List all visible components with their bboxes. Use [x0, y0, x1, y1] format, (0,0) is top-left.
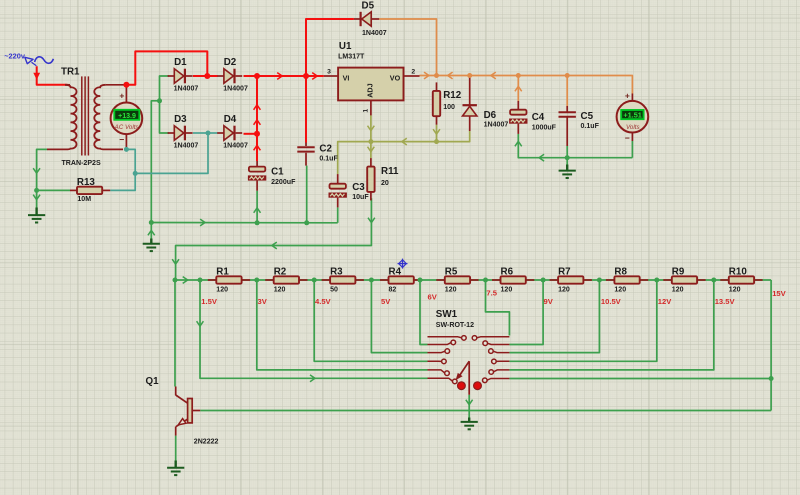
wire AC source to TR1 primary top (red)	[37, 66, 68, 85]
capacitor C4 leads	[517, 101, 519, 134]
resistor R7	[550, 266, 592, 293]
resistor R8	[606, 266, 648, 293]
junction node chain start	[173, 278, 178, 283]
svg-text:1: 1	[363, 109, 370, 113]
svg-text:VO: VO	[390, 73, 401, 82]
svg-text:50: 50	[330, 287, 338, 294]
svg-text:6V: 6V	[428, 292, 438, 301]
svg-text:C2: C2	[319, 144, 332, 155]
wire 10.5V tap (green)	[509, 280, 599, 353]
wire D4 junction down to C1 (red)	[256, 134, 258, 161]
svg-text:R1: R1	[216, 266, 229, 277]
current arrow	[368, 147, 375, 152]
current arrow	[33, 168, 40, 173]
junction node C2 bottom	[304, 220, 309, 225]
svg-text:D3: D3	[174, 114, 187, 125]
resistor R3	[322, 266, 364, 293]
wire D4 cathode to junction (red)	[244, 133, 258, 135]
svg-text:U1: U1	[339, 41, 352, 52]
junction node C1 bottom	[255, 220, 260, 225]
svg-text:2200uF: 2200uF	[271, 179, 296, 186]
wire SW1 pole to ground (green)	[468, 395, 470, 418]
wire VI junction up to D5 anode-side (red)	[306, 19, 354, 76]
junction node R13 left	[34, 188, 39, 193]
capacitor C5	[559, 111, 600, 130]
svg-text:9V: 9V	[544, 297, 554, 306]
svg-text:TR1: TR1	[61, 67, 80, 78]
svg-text:120: 120	[614, 287, 626, 294]
current arrow	[368, 218, 375, 223]
svg-text:AC Volts: AC Volts	[114, 124, 139, 131]
svg-text:D4: D4	[224, 114, 237, 125]
svg-text:5V: 5V	[381, 297, 391, 306]
svg-text:−: −	[119, 134, 124, 144]
rotary switch SW1 SW-ROT-12	[428, 309, 510, 395]
AC mains source ~220v	[4, 52, 53, 66]
ground	[461, 418, 478, 430]
capacitor C3 leads	[337, 174, 339, 207]
wire D2 anode from junction (red)	[207, 75, 217, 77]
wire C4 bottom return (green)	[518, 134, 632, 158]
svg-text:+: +	[625, 91, 630, 101]
svg-text:1N4007: 1N4007	[223, 86, 248, 93]
wire VO rail corner down to voltmeter (orange)	[631, 76, 634, 94]
capacitor C3	[329, 182, 370, 201]
current arrow	[172, 259, 179, 264]
wire VI junction down to C2 (red)	[305, 76, 307, 143]
wire node output of D4 vertical (red)	[256, 76, 258, 134]
wire 12V tap (green)	[509, 280, 656, 361]
junction node ground rail	[149, 220, 154, 225]
ground	[143, 239, 160, 252]
current arrow	[448, 72, 453, 79]
junction node 6V	[418, 278, 423, 283]
junction node C4 top	[516, 73, 521, 78]
svg-text:R9: R9	[672, 266, 685, 277]
ground	[559, 165, 576, 179]
wire 1.5V tap (green)	[200, 280, 428, 378]
wire VO rail (orange)	[420, 75, 632, 77]
current arrow	[277, 73, 282, 80]
wire C5 bottom lead (green)	[566, 146, 568, 158]
junction node D6 top	[467, 73, 472, 78]
resistor R4	[380, 266, 422, 293]
junction node D3-D4	[206, 131, 211, 136]
wire D1 anode branch (green)	[160, 76, 170, 133]
wire ground rail horizontal (green)	[151, 222, 337, 224]
svg-text:1.5V: 1.5V	[201, 297, 218, 306]
svg-text:120: 120	[558, 287, 570, 294]
current arrow	[402, 138, 407, 145]
resistor R11	[367, 158, 399, 200]
capacitor C2	[297, 144, 338, 163]
current arrow	[254, 120, 261, 125]
svg-text:1000uF: 1000uF	[532, 124, 557, 131]
current arrow	[272, 242, 277, 249]
wire 15V corner down (green)	[770, 280, 772, 411]
resistor R2	[265, 266, 307, 293]
wire R11 bottom to R1 feed (green)	[176, 198, 372, 280]
resistor R1	[208, 266, 250, 293]
capacitor C2	[305, 143, 307, 166]
svg-text:Q1: Q1	[146, 376, 160, 387]
AC voltmeter	[111, 85, 143, 150]
svg-text:D2: D2	[224, 57, 237, 68]
junction node 1.5V	[198, 278, 203, 283]
wire 7.5V tap (green)	[486, 280, 510, 336]
svg-text:R6: R6	[501, 266, 514, 277]
junction node D1-D2	[204, 73, 210, 79]
svg-text:R2: R2	[274, 266, 287, 277]
resistor R10	[720, 266, 762, 293]
svg-text:R8: R8	[614, 266, 627, 277]
capacitor C5 leads	[566, 106, 568, 146]
wire D4 anode from junction (teal)	[208, 132, 218, 134]
transistor Q1 2N2222	[146, 376, 219, 445]
svg-text:10uF: 10uF	[352, 194, 369, 201]
svg-text:TRAN-2P2S: TRAN-2P2S	[62, 160, 101, 167]
svg-text:1N4007: 1N4007	[223, 143, 248, 150]
wire 15V to SW contact (green)	[509, 378, 771, 380]
current arrow	[368, 126, 375, 131]
wire C4 top lead from rail (orange)	[517, 76, 519, 102]
svg-text:ADJ: ADJ	[365, 83, 374, 97]
resistor R9	[663, 266, 705, 293]
resistor R6	[492, 266, 534, 293]
svg-text:13.5V: 13.5V	[715, 297, 736, 306]
current arrow	[433, 129, 440, 134]
junction node TR1 secondary bottom	[124, 147, 129, 152]
diode D3	[168, 114, 199, 150]
origin marker (blue diamond)	[398, 259, 408, 269]
svg-text:R10: R10	[729, 266, 748, 277]
svg-text:R12: R12	[443, 90, 462, 101]
capacitor C1	[256, 161, 258, 191]
wire TR1 secondary top to D1/D2 junction (red)	[126, 51, 207, 84]
svg-text:LM317T: LM317T	[338, 54, 365, 61]
wire ADJ net horizontal (olive)	[338, 131, 470, 174]
svg-text:100: 100	[443, 104, 455, 111]
wire ADJ junction down to R11 (olive)	[370, 142, 372, 159]
diode D1	[168, 57, 199, 93]
current arrow	[254, 208, 261, 213]
current arrow	[148, 230, 155, 235]
junction node 15V branch	[769, 376, 774, 381]
current arrow	[197, 321, 204, 326]
svg-text:0.1uF: 0.1uF	[319, 156, 338, 163]
wire Q1 emitter to ground (green)	[175, 436, 177, 461]
svg-text:C4: C4	[532, 112, 545, 123]
junction node R12 top	[434, 73, 439, 78]
capacitor C4	[509, 110, 557, 132]
wire secondary bottom to D3/D4 junction (teal)	[135, 133, 208, 173]
junction node C5 ground	[565, 155, 570, 160]
current arrow	[539, 154, 544, 161]
current arrow	[312, 73, 317, 80]
current arrow	[200, 219, 205, 226]
current arrow	[491, 72, 496, 79]
wire resistor chain rail (green)	[175, 279, 771, 281]
svg-text:120: 120	[274, 287, 286, 294]
junction node 7.5V	[483, 278, 488, 283]
svg-text:R5: R5	[445, 266, 458, 277]
wire C5 top lead from rail (orange)	[566, 76, 568, 107]
svg-text:~220v: ~220v	[4, 52, 26, 61]
svg-text:R11: R11	[381, 166, 399, 177]
svg-text:D5: D5	[362, 0, 375, 11]
wire ADJ pin down (olive)	[370, 115, 372, 141]
wire DC voltmeter negative return (green)	[631, 141, 633, 158]
wire ground rail to ground symbol (green)	[150, 223, 152, 239]
current arrow	[424, 72, 429, 79]
resistor R5	[436, 266, 478, 293]
wire 13.5V tap (green)	[509, 280, 713, 370]
svg-text:3: 3	[327, 68, 331, 75]
svg-text:SW-ROT-12: SW-ROT-12	[436, 322, 474, 329]
svg-text:0.1uF: 0.1uF	[581, 123, 600, 130]
wire 5V tap (green)	[371, 280, 427, 353]
svg-text:+: +	[119, 90, 124, 100]
junction node ADJ	[368, 139, 373, 144]
DC voltmeter	[617, 91, 649, 143]
wire D1 cathode to junction (red)	[193, 75, 207, 77]
current arrow	[310, 375, 315, 382]
svg-text:82: 82	[389, 287, 397, 294]
capacitor C1	[248, 167, 296, 186]
resistor R13	[70, 177, 110, 203]
svg-text:120: 120	[672, 287, 684, 294]
svg-text:1N4007: 1N4007	[174, 86, 199, 93]
svg-text:12V: 12V	[658, 297, 672, 306]
svg-text:20: 20	[381, 180, 389, 187]
wire 4.5V tap (green)	[314, 280, 427, 361]
AC input terminal arrow	[33, 73, 40, 80]
current arrow	[515, 86, 522, 91]
wire anode junction to ground rail (green)	[151, 101, 159, 223]
junction node 10.5V	[597, 278, 602, 283]
junction node VI	[303, 73, 309, 79]
svg-text:SW1: SW1	[436, 309, 458, 320]
svg-text:C5: C5	[581, 111, 594, 122]
junction node D1-D3 anodes	[157, 98, 162, 103]
svg-text:7.5: 7.5	[486, 288, 497, 297]
current arrow	[33, 195, 40, 200]
wire 9V tap (green)	[509, 280, 543, 345]
wire C1 bottom to ground rail (green)	[256, 191, 258, 223]
svg-text:R7: R7	[558, 266, 571, 277]
svg-text:C1: C1	[271, 167, 284, 178]
svg-text:D6: D6	[484, 110, 497, 121]
wire 3V tap (green)	[257, 280, 428, 370]
diode D4	[217, 114, 248, 150]
wire chain rail corner to Q1 collector (green)	[174, 280, 176, 387]
SW1 rotate buttons	[458, 382, 466, 390]
junction node 5V	[369, 278, 374, 283]
junction node 13.5V	[711, 278, 716, 283]
svg-text:10.5V: 10.5V	[601, 297, 622, 306]
svg-text:120: 120	[729, 287, 741, 294]
junction node TR1 secondary top	[123, 82, 129, 88]
ground	[28, 208, 45, 223]
svg-text:R3: R3	[330, 266, 343, 277]
svg-text:VI: VI	[343, 73, 350, 82]
junction node C5 top	[565, 73, 570, 78]
svg-text:2N2222: 2N2222	[194, 439, 219, 446]
diode D2	[217, 57, 248, 93]
junction node 9V	[541, 278, 546, 283]
transformer TR1	[47, 67, 126, 167]
svg-text:R13: R13	[77, 177, 96, 188]
junction node 4.5V	[312, 278, 317, 283]
ground	[167, 461, 184, 476]
svg-text:120: 120	[216, 287, 228, 294]
current arrow	[254, 145, 261, 150]
current arrow	[183, 277, 188, 284]
svg-text:−: −	[625, 133, 630, 143]
wire 6V tap (green)	[420, 280, 428, 345]
svg-text:4.5V: 4.5V	[315, 297, 332, 306]
svg-text:3V: 3V	[258, 297, 268, 306]
svg-text:Volts: Volts	[626, 124, 640, 131]
svg-text:120: 120	[445, 287, 457, 294]
svg-text:1N4007: 1N4007	[174, 143, 199, 150]
wire R12 bottom to ADJ net (olive)	[436, 125, 438, 142]
svg-text:+13.9: +13.9	[118, 113, 136, 120]
wire D5 cathode to VO rail (orange)	[379, 19, 436, 76]
junction node D2 out	[254, 73, 260, 79]
wire C2 bottom to ground rail (green)	[306, 166, 308, 223]
svg-text:1N4007: 1N4007	[484, 122, 509, 129]
svg-text:120: 120	[501, 287, 513, 294]
wire Q1 base line (green)	[200, 410, 771, 412]
junction node 12V	[654, 278, 659, 283]
junction node R13 branch	[133, 171, 138, 176]
diode D6	[463, 76, 509, 132]
wire C5 ground stem (green)	[566, 158, 568, 165]
diode D5	[354, 0, 387, 36]
wire D2 cathode to U1 VI (red)	[244, 75, 324, 77]
wire D3 cathode to junction (teal)	[193, 132, 208, 134]
svg-text:15V: 15V	[772, 289, 786, 298]
op-amp regulator U1 LM317T	[324, 41, 420, 115]
svg-text:D1: D1	[174, 57, 187, 68]
current arrow	[254, 105, 261, 110]
wire TR1 secondary bottom net (teal)	[110, 149, 135, 190]
svg-text:1N4007: 1N4007	[362, 30, 387, 37]
junction node D4 out	[254, 131, 260, 137]
svg-text:C3: C3	[352, 182, 365, 193]
svg-text:R4: R4	[389, 266, 402, 277]
current arrow	[466, 400, 473, 405]
junction node 3V	[254, 278, 259, 283]
wire C3 bottom to ground rail (green)	[337, 207, 339, 222]
current arrow	[515, 141, 522, 146]
svg-text:+1.51: +1.51	[623, 111, 641, 120]
junction node R12 bottom	[434, 139, 439, 144]
svg-text:2: 2	[411, 68, 415, 75]
wire R13 left lead wire (green)	[37, 189, 70, 191]
svg-text:10M: 10M	[77, 196, 91, 203]
resistor R12	[433, 82, 462, 124]
wire TR1 primary bottom to ground (green)	[37, 149, 48, 207]
